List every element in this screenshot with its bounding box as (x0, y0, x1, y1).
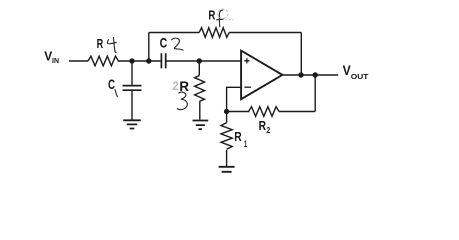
wire R1 to ground (226, 150, 228, 166)
wire RF right vertical (300, 33, 302, 76)
wire R1 top lead (226, 112, 228, 123)
svg-text:C: C (160, 36, 168, 52)
capacitor C1 plates (123, 86, 142, 91)
ground (R1) (219, 167, 235, 172)
resistor R1 zigzag (221, 123, 232, 149)
svg-text:R: R (208, 8, 215, 23)
op-amp plus sign (244, 58, 249, 63)
ground (C1) (123, 120, 141, 128)
node dot C1 junction (129, 58, 134, 63)
svg-text:R: R (97, 36, 104, 51)
resistor R4 (input R) (88, 56, 118, 66)
svg-text:2: 2 (172, 79, 179, 93)
capacitor C2 plates (161, 53, 165, 68)
wire R2 right lead (279, 111, 315, 113)
wire R3 branch vertical (198, 61, 200, 76)
wire RF top left (149, 32, 199, 34)
resistor R2 zigzag (249, 107, 279, 117)
handwritten subscript 4 (input R) (107, 37, 116, 52)
wire output (282, 74, 338, 76)
node dot minus/R1/R2 (224, 109, 229, 114)
op-amp minus sign (244, 86, 251, 88)
handwritten subscript 2 (C2) (172, 38, 184, 50)
op-amp U1 triangle (241, 51, 282, 100)
handwritten subscript f (RF) (217, 10, 224, 27)
svg-text:OUT: OUT (351, 72, 369, 81)
wire C1 branch vertical (131, 61, 133, 85)
handwritten subscript 3 (R3) (177, 92, 187, 110)
svg-text:C: C (108, 77, 115, 93)
svg-text:IN: IN (52, 58, 59, 65)
wire R2 right vertical (314, 75, 316, 112)
faint printed subscript ghost (dashed circle near RF) (218, 9, 234, 20)
wire R3 to ground (199, 102, 201, 120)
svg-text:R: R (234, 129, 242, 144)
node dot output/RF (298, 72, 303, 77)
ground (R3) (193, 121, 209, 130)
node dot RF junction (146, 58, 151, 63)
wire RF top right (229, 32, 301, 34)
wire C1 to ground (131, 91, 133, 120)
resistor RF zigzag (199, 28, 229, 38)
wire R2 left lead (227, 111, 250, 113)
handwritten subscript 1 (C1) (115, 90, 117, 97)
wire minus input (227, 87, 241, 111)
resistor R3 zigzag (195, 76, 205, 102)
node dot output/R2 (313, 72, 318, 77)
svg-text:2: 2 (266, 125, 270, 135)
wire C2 to op-amp + input (167, 60, 241, 62)
svg-text:R: R (259, 118, 267, 133)
svg-text:1: 1 (244, 139, 247, 149)
node dot R3 junction (197, 58, 202, 63)
wire VIN lead (69, 60, 88, 62)
wire RF left vertical (148, 33, 150, 62)
wire node A segment (118, 60, 161, 62)
